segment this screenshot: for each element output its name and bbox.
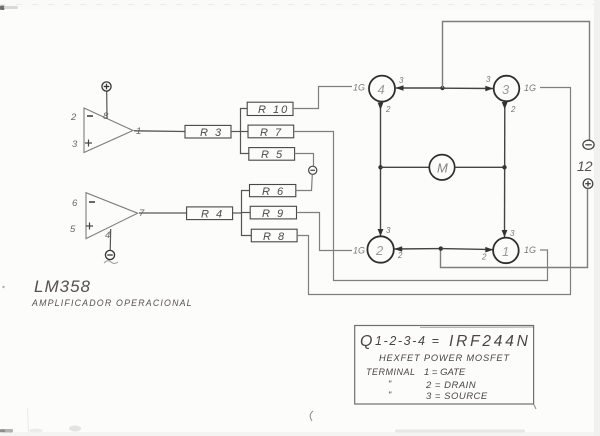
wire top loop to battery minus (443, 22, 590, 141)
wire pin4 to V- (109, 229, 112, 250)
op-amp U1B minus input mark (89, 201, 95, 203)
svg-text:3: 3 (502, 82, 510, 97)
svg-text:Q: Q (360, 333, 372, 350)
wire R3 to bus (231, 131, 241, 133)
stray pencil squiggle (104, 261, 118, 264)
svg-text:3: 3 (72, 139, 78, 150)
Q2 pin3 arrow (source, top) (378, 229, 384, 236)
op-amp U1A (LM358 A) (84, 108, 133, 153)
svg-text:2: 2 (481, 253, 487, 262)
wire R8 to gate of Q3 (297, 88, 570, 295)
wire R4 to bus (233, 212, 241, 214)
bus joining R10 R7 R5 (241, 109, 249, 154)
op-amp U1B (LM358 B) (86, 193, 138, 239)
resistor R4 (187, 207, 233, 220)
svg-text:1-2-3-4 =: 1-2-3-4 = (375, 334, 440, 348)
resistor R5 (249, 148, 295, 161)
power V- terminal circle (105, 250, 114, 259)
svg-text:6: 6 (72, 198, 78, 209)
svg-text:1: 1 (502, 244, 509, 259)
transistor Q2 (367, 236, 393, 262)
wire pin8 to V+ (106, 91, 108, 119)
op-amp U1B pin labels (70, 198, 145, 241)
svg-text:1 = GATE: 1 = GATE (424, 367, 466, 378)
svg-text:2: 2 (385, 105, 391, 114)
wire R7 to gate of Q1 (294, 132, 548, 281)
svg-text:2 = DRAIN: 2 = DRAIN (425, 380, 476, 391)
transistor Q1 (493, 238, 519, 264)
Q3 pin2 wire and arrow (drain, bottom) (504, 102, 506, 238)
svg-text:3: 3 (399, 76, 404, 85)
resistor R3 (185, 125, 231, 138)
Q1 pin3 arrow (source, top) (502, 230, 508, 237)
op-amp U1A plus input mark (85, 140, 92, 147)
node junction motor left (378, 165, 382, 169)
wire R9 to gate of Q2 (297, 213, 353, 251)
note box (355, 326, 534, 405)
wire motor left (381, 166, 430, 168)
wire R6 to node minus (296, 174, 313, 190)
svg-text:AMPLIFICADOR OPERACIONAL: AMPLIFICADOR OPERACIONAL (31, 298, 193, 308)
Q4 pin2 wire and arrow (drain, bottom) (380, 102, 382, 236)
wire motor right (455, 166, 505, 168)
svg-text:1G: 1G (353, 246, 365, 256)
resistor R8 (251, 229, 297, 242)
svg-text:3 = SOURCE: 3 = SOURCE (426, 391, 488, 402)
svg-text:HEXFET POWER MOSFET: HEXFET POWER MOSFET (379, 353, 510, 363)
svg-text:R 10: R 10 (258, 104, 289, 116)
Q2 pin2 wire and arrow (drain, right) (394, 248, 441, 250)
svg-text:12: 12 (577, 158, 593, 174)
node junction bottom rail (439, 246, 443, 250)
svg-text:M: M (437, 161, 448, 176)
svg-text:1G: 1G (353, 83, 365, 93)
wire R5 to node minus (295, 154, 314, 167)
svg-text:R 9: R 9 (262, 208, 285, 220)
resistor R10 (247, 102, 293, 115)
wire battery plus to bottom rail junction (441, 189, 588, 268)
svg-text:R 7: R 7 (260, 127, 283, 139)
resistor R9 (250, 206, 296, 219)
svg-text:2: 2 (397, 251, 403, 260)
svg-text:3: 3 (510, 229, 515, 238)
svg-text:1G: 1G (524, 83, 536, 93)
wire R10 to gate of Q4 (293, 87, 352, 109)
wire op-amp B output to R4 (139, 212, 187, 214)
svg-text:5: 5 (70, 224, 76, 235)
svg-text:3: 3 (486, 75, 491, 84)
battery plus terminal (583, 179, 593, 189)
svg-text:3: 3 (386, 226, 391, 235)
wire top rail to Q3 (443, 87, 494, 89)
svg-text:R 5: R 5 (261, 149, 284, 161)
svg-text:2: 2 (70, 112, 77, 123)
resistor R6 (250, 185, 296, 197)
svg-text:2: 2 (375, 243, 384, 258)
battery minus terminal (583, 140, 594, 149)
svg-text:1G: 1G (524, 245, 536, 255)
svg-text:R 4: R 4 (201, 209, 224, 221)
svg-text:TERMINAL: TERMINAL (366, 367, 416, 377)
op-amp U1A pin labels (70, 111, 141, 150)
wire bottom rail to Q1 (441, 249, 493, 250)
svg-text:IRF244N: IRF244N (449, 333, 531, 350)
node (-) terminal circle between R5 and R6 (309, 166, 317, 174)
node junction top rail (440, 86, 444, 90)
resistor R7 (248, 125, 294, 138)
svg-text:R 8: R 8 (263, 231, 286, 243)
svg-text:4: 4 (105, 230, 110, 241)
motor M (429, 155, 454, 180)
svg-text:4: 4 (378, 82, 385, 97)
op-amp U1B plus input mark (86, 223, 93, 230)
stray pencil mark bottom left (310, 411, 313, 421)
power V+ terminal circle (102, 82, 111, 91)
Q4 pin3 wire and arrow (source, right) (396, 87, 443, 89)
node junction motor right (502, 165, 506, 169)
transistor Q4 (369, 76, 395, 102)
svg-text:2: 2 (510, 105, 516, 114)
op-amp U1A minus input mark (87, 115, 93, 117)
svg-text:8: 8 (103, 111, 109, 122)
svg-text:R 3: R 3 (200, 127, 223, 139)
wire op-amp A output to R3 (134, 130, 185, 133)
svg-text:LM358: LM358 (34, 277, 91, 296)
svg-text:R 6: R 6 (262, 186, 285, 198)
transistor Q3 (494, 76, 520, 102)
bus joining R6 R9 R8 (242, 191, 252, 236)
